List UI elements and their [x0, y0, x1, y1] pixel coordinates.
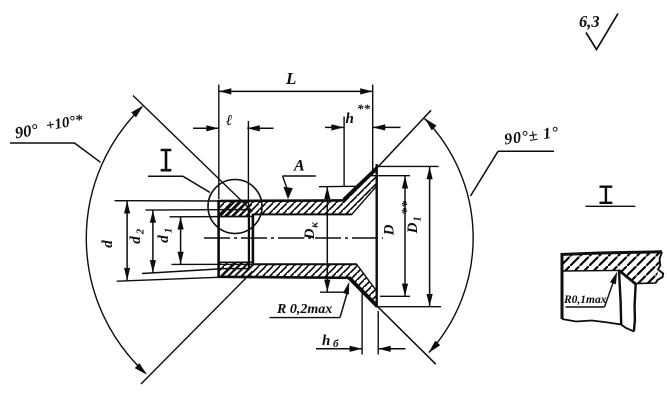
detail corner diagonal: [619, 270, 636, 284]
wire step 2: [252, 214, 255, 265]
wire inner cone bottom: [357, 264, 377, 291]
left angle arc 90+10: [86, 107, 145, 373]
wire outer bottom: [218, 277, 350, 278]
svg-text:к: к: [309, 222, 321, 228]
svg-text:d: d: [156, 235, 172, 243]
detail corner vertical: [619, 271, 621, 325]
svg-text:d: d: [100, 240, 116, 248]
svg-text:h: h: [346, 111, 354, 127]
dimension l: [193, 113, 274, 209]
wire d1 bore top: [219, 216, 253, 218]
detail right face edge: [634, 284, 636, 332]
wire left cone line B: [141, 274, 250, 384]
detail callout circle I: [208, 180, 262, 234]
extra dark hatch strokes left section: [220, 201, 253, 277]
label 90+10: [10, 112, 101, 162]
svg-text:D: D: [405, 222, 421, 234]
detail title I: [600, 187, 613, 203]
svg-text:R0,1max: R0,1max: [563, 294, 607, 306]
svg-text:R 0,2max: R 0,2max: [276, 302, 332, 317]
detail hatch band: [562, 252, 662, 284]
wire inner cone top: [352, 186, 377, 215]
detail band bottom right: [636, 282, 656, 285]
dimension D1**: [378, 166, 442, 306]
dimension L: [219, 69, 373, 199]
wire bore top: [253, 213, 352, 215]
dimension h_b: [316, 294, 406, 355]
label A view arrow: [282, 158, 315, 200]
surface finish 6,3: [579, 12, 618, 50]
label R0,2max: [270, 281, 353, 318]
detail bottom break edge: [562, 319, 634, 332]
wire flare bottom edge: [349, 278, 377, 306]
wire d2 ledge bottom: [219, 268, 250, 270]
svg-text:D: D: [302, 228, 318, 240]
hatch top wall: [219, 168, 377, 216]
wire left cone line A: [133, 96, 252, 211]
centerline: [204, 237, 383, 239]
svg-text:1: 1: [163, 228, 175, 234]
detail right break edge: [656, 252, 664, 283]
node DETAIL-VIEW I: [561, 187, 664, 332]
dimension D: [370, 176, 411, 297]
dimension d: [100, 201, 218, 282]
wire chamfer line extended top-right: [376, 110, 432, 169]
svg-text:h: h: [322, 333, 330, 349]
detail top edge: [561, 252, 663, 255]
wire outer top: [218, 199, 345, 202]
label 90+-1: [471, 124, 561, 196]
svg-text:D: D: [382, 224, 398, 236]
detail band bottom left: [563, 269, 620, 272]
svg-text:б: б: [333, 338, 339, 350]
detail left edge: [561, 253, 564, 319]
dimension d1: [156, 217, 252, 265]
wire d2 ledge top: [219, 209, 250, 211]
wire bore bottom: [253, 263, 357, 265]
right angle arc 90+-1: [425, 119, 474, 353]
dimension Dk: [302, 186, 357, 292]
svg-text:d: d: [128, 236, 144, 244]
wire d1 bore bottom: [219, 261, 253, 263]
svg-text:L: L: [285, 69, 296, 88]
svg-text:90°: 90°: [13, 120, 39, 143]
svg-text:1: 1: [412, 216, 424, 222]
wire step 1: [248, 210, 250, 269]
hatch bottom wall: [219, 262, 377, 306]
dimension h**: [325, 101, 401, 187]
svg-text:2: 2: [135, 228, 147, 235]
wire flare top edge: [344, 168, 377, 200]
wire end face: [376, 164, 378, 308]
svg-text:ℓ: ℓ: [226, 113, 232, 129]
svg-text:6,3: 6,3: [579, 12, 600, 31]
wire left face: [217, 200, 220, 278]
node I callout label: [148, 150, 210, 193]
svg-text:**: **: [400, 200, 415, 215]
wire chamfer line extended bottom-right: [376, 305, 436, 365]
svg-text:A: A: [293, 158, 305, 175]
svg-text:**: **: [357, 101, 371, 116]
dimension d2: [128, 210, 218, 274]
